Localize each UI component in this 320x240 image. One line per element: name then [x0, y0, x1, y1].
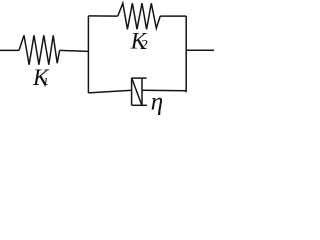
node B right vertical	[185, 16, 187, 92]
spring K2	[118, 3, 160, 29]
wire right output	[186, 49, 214, 51]
wire top branch right	[160, 15, 186, 17]
wire bottom branch right	[142, 89, 186, 92]
svg-text:K: K	[32, 65, 50, 90]
svg-text:2: 2	[141, 38, 148, 53]
wire spring K1 to node A	[60, 50, 89, 51]
svg-text:η: η	[151, 89, 163, 116]
dashpot cylinder bottom cap	[132, 104, 147, 106]
dashpot diagonal stroke	[132, 78, 142, 105]
dashpot piston plate	[141, 78, 143, 105]
dashpot cylinder top cap	[132, 77, 147, 79]
svg-text:l: l	[44, 75, 48, 89]
wire left input	[0, 49, 19, 51]
dashpot cylinder left wall	[131, 78, 133, 106]
wire bottom branch left	[88, 90, 131, 93]
node A left vertical	[87, 16, 89, 93]
wire top branch left	[88, 15, 117, 17]
spring K1	[19, 35, 60, 65]
